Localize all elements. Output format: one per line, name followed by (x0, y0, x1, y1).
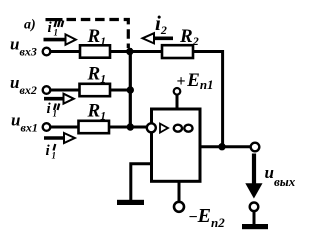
resistor R1 (row 3) (79, 121, 110, 133)
wire row1 right (110, 50, 132, 53)
resistor R1 (row 2) (80, 84, 111, 96)
wire row3 left (51, 126, 79, 129)
op-amp U1 body (152, 109, 201, 181)
wire -Ep2 pin (178, 181, 181, 202)
terminal u_vx3 (43, 48, 51, 56)
node feedback junction (218, 143, 225, 150)
svg-text:1: 1 (52, 151, 57, 161)
label i1''' with overline (46, 18, 64, 38)
wire summing bus (129, 48, 132, 127)
arrow i1''' (44, 34, 76, 44)
wire row2 right (110, 89, 132, 92)
terminal output (251, 143, 260, 152)
terminal +Ep1 (174, 88, 181, 95)
terminal -Ep2 (174, 202, 184, 212)
arrow i1' (44, 133, 75, 143)
resistor R2 (162, 45, 193, 58)
ground (non-inverting input) (117, 200, 144, 205)
wire row3 right to inverting input (109, 126, 147, 129)
svg-text:1: 1 (54, 28, 59, 38)
node row1 junction (126, 48, 133, 55)
arrow u_vyh (output voltage) (245, 154, 262, 199)
wire op-amp output (201, 145, 251, 148)
op-amp infinity symbol (174, 125, 193, 132)
wire +Ep1 stem (176, 95, 179, 111)
wire row2 left (51, 89, 80, 92)
terminal u_vx2 (43, 86, 51, 94)
wire row1 left (51, 50, 80, 53)
arrow i2 (pointing left) (143, 33, 174, 43)
wire R2 left (128, 50, 162, 53)
wire R2 right + feedback drop (193, 52, 223, 147)
node row2 junction (127, 86, 134, 93)
terminal u_vyh lower (250, 203, 259, 212)
ground (output) (242, 224, 268, 229)
svg-text:а): а) (24, 18, 36, 33)
op-amp inverting input circle (147, 123, 156, 132)
wire non-inverting input to ground (131, 164, 151, 201)
op-amp triangle symbol (160, 124, 168, 133)
resistor R1 (row 1) (80, 45, 110, 57)
wire ground stem (253, 212, 256, 225)
node row3 junction (127, 123, 134, 130)
terminal u_vx1 (43, 123, 51, 131)
arrow i1'' (44, 94, 74, 104)
dashed feedback path (top) (67, 20, 129, 49)
